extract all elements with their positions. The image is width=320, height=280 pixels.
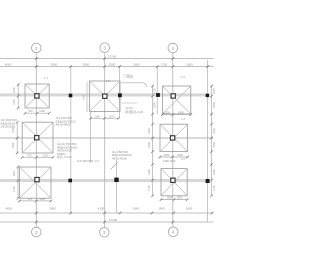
- svg-text:1050: 1050: [212, 88, 216, 94]
- svg-text:1050: 1050: [212, 141, 216, 147]
- svg-text:J-2: J-2: [181, 117, 185, 121]
- svg-text:1750: 1750: [147, 185, 151, 191]
- column KZ row3 grid4: [171, 178, 175, 182]
- column (filled) row3 c: [206, 179, 210, 183]
- annotation block JL1: [57, 142, 77, 159]
- svg-text:梁顶标高-0.20: 梁顶标高-0.20: [125, 110, 143, 114]
- column (filled) row3 a: [68, 179, 72, 183]
- svg-text:17100: 17100: [109, 218, 118, 222]
- svg-text:4: 4: [172, 230, 175, 235]
- svg-text:1300: 1300: [12, 170, 16, 176]
- column (filled) row1 c: [156, 93, 160, 97]
- bottom grid bubble 4: [168, 227, 178, 237]
- svg-text:1750: 1750: [12, 186, 16, 192]
- svg-text:J-2: J-2: [106, 79, 110, 83]
- svg-text:1050: 1050: [11, 142, 15, 148]
- column (filled) row1 d: [206, 94, 209, 97]
- bottom segment tick at grid 3: [103, 212, 106, 215]
- leader line to row3 beam: [111, 163, 118, 170]
- svg-text:4000: 4000: [5, 62, 12, 66]
- intermediate grid line c: [156, 67, 158, 115]
- left vertical dims row3: [12, 166, 19, 200]
- svg-text:3000: 3000: [49, 206, 56, 210]
- column KZ row2 grid4: [170, 136, 174, 140]
- svg-text:1100: 1100: [39, 109, 45, 113]
- svg-text:1050: 1050: [164, 111, 170, 115]
- svg-text:975: 975: [28, 197, 33, 201]
- column (filled) row3 b: [114, 178, 118, 182]
- svg-text:3: 3: [103, 46, 106, 51]
- grid line 4: [172, 54, 174, 228]
- top grid bubble 4: [168, 43, 178, 53]
- svg-text:4: 4: [172, 46, 175, 51]
- footing sub-dims row1 grid2: [24, 109, 51, 114]
- footing J-2 row1 grid4: [162, 86, 190, 114]
- footing row2 grid4: [160, 124, 188, 151]
- svg-text:1100: 1100: [94, 114, 100, 118]
- annotation JL6: [77, 159, 99, 163]
- svg-text:1050: 1050: [147, 141, 151, 147]
- grid line 2: [35, 54, 37, 228]
- svg-text:1300: 1300: [212, 169, 216, 175]
- svg-text:1100: 1100: [39, 197, 45, 201]
- svg-text:4Φ18;4Φ18: 4Φ18;4Φ18: [56, 123, 71, 127]
- right vertical dim line: [210, 85, 216, 197]
- top grid bubble 3: [100, 43, 110, 53]
- column KZ row1 grid4: [171, 94, 175, 98]
- svg-text:J-2: J-2: [181, 157, 185, 161]
- annotation block JL5 (left edge): [1, 118, 18, 129]
- door pier annotation 门垛位: [121, 73, 147, 86]
- aux line d: [90, 112, 92, 164]
- svg-text:1050: 1050: [177, 196, 183, 200]
- intermediate grid line b: [119, 67, 121, 119]
- bottom segment dimension line: [0, 206, 214, 214]
- svg-text:门垛位: 门垛位: [124, 73, 134, 78]
- svg-text:J-2: J-2: [181, 75, 185, 79]
- top overall dimension line: [0, 55, 214, 60]
- svg-text:1050: 1050: [164, 153, 170, 157]
- row2 beam line: [0, 137, 213, 139]
- footing2 left dim line: [82, 82, 88, 112]
- svg-text:2: 2: [35, 230, 38, 235]
- svg-text:1100: 1100: [109, 114, 115, 118]
- annotation block JL2: [112, 150, 132, 161]
- svg-text:2600: 2600: [186, 206, 193, 210]
- svg-text:3000: 3000: [83, 62, 90, 66]
- footing sub-dims row1 grid3: [89, 114, 120, 119]
- svg-text:4300: 4300: [98, 206, 105, 210]
- svg-text:4000: 4000: [6, 206, 13, 210]
- svg-text:600: 600: [28, 109, 33, 113]
- left vertical dims row1: [12, 83, 19, 109]
- svg-text:3000: 3000: [51, 62, 58, 66]
- column KZ row1 grid3: [103, 94, 107, 98]
- svg-text:1500: 1500: [109, 62, 116, 66]
- svg-text:1300: 1300: [147, 169, 151, 175]
- row3 wall band: [0, 179, 210, 182]
- svg-text:1050 1050: 1050 1050: [163, 159, 176, 163]
- svg-text:1100: 1100: [12, 99, 16, 105]
- top segment dimension line: [0, 62, 214, 68]
- right grid line: [207, 60, 209, 222]
- svg-text:2600: 2600: [133, 206, 140, 210]
- svg-text:J-1: J-1: [44, 76, 48, 80]
- svg-text:1050: 1050: [12, 87, 16, 93]
- svg-text:1100: 1100: [42, 153, 48, 157]
- svg-text:JL6 250×500 -0.3: JL6 250×500 -0.3: [77, 159, 99, 163]
- svg-text:1800: 1800: [82, 94, 86, 100]
- annotation block JL2(1) with level note: [122, 103, 143, 114]
- svg-text:1500: 1500: [158, 206, 165, 210]
- footing sub-dims row2 grid2: [21, 153, 54, 158]
- svg-text:2600: 2600: [133, 62, 140, 66]
- left vertical dims row2: [11, 121, 18, 154]
- annotation block JL3: [56, 116, 76, 127]
- intermediate grid line a: [70, 67, 72, 214]
- svg-text:2: 2: [35, 46, 38, 51]
- footing sub-dims row3 grid4: [160, 196, 189, 201]
- aux line e: [116, 160, 118, 213]
- svg-text:1700: 1700: [161, 62, 168, 66]
- footing row3 grid4: [161, 169, 187, 196]
- footing J-2 row1 grid3: [90, 81, 121, 112]
- svg-text:17100: 17100: [108, 55, 117, 59]
- svg-text:1800: 1800: [212, 102, 216, 108]
- column KZ row3 grid2: [35, 177, 39, 181]
- svg-text:1800: 1800: [178, 111, 184, 115]
- svg-text:标高 -0.030: 标高 -0.030: [57, 155, 72, 159]
- column (filled) row1 a: [69, 94, 73, 98]
- svg-text:2600: 2600: [186, 62, 193, 66]
- svg-text:1300: 1300: [147, 128, 151, 134]
- footing sub-dims row2 grid4: [159, 153, 189, 158]
- top grid bubble 2: [32, 43, 42, 53]
- column KZ row2 grid2: [35, 136, 39, 140]
- grid line 3: [104, 54, 106, 228]
- bottom grid bubble 2: [32, 227, 42, 237]
- svg-text:1050: 1050: [152, 88, 156, 94]
- footing sub-dims row3 grid2: [18, 197, 52, 202]
- svg-text:1750: 1750: [212, 185, 216, 191]
- footing row2 grid2: [22, 122, 53, 153]
- column KZ row1 grid2: [35, 94, 39, 98]
- column (filled) row1 b: [118, 93, 122, 97]
- svg-text:2Φ18;2Φ18: 2Φ18;2Φ18: [1, 125, 16, 129]
- bottom grid bubble 3: [100, 228, 110, 238]
- row1 wall band: [0, 93, 210, 96]
- svg-text:1300: 1300: [212, 128, 216, 134]
- footing J-1 row1 grid2: [25, 84, 49, 108]
- svg-text:975: 975: [27, 153, 32, 157]
- footing sub-dims row1 grid4: [161, 111, 192, 116]
- svg-text:4Φ18;4Φ18: 4Φ18;4Φ18: [112, 156, 127, 160]
- svg-text:3: 3: [103, 230, 106, 235]
- footing row3 grid2: [20, 167, 52, 198]
- svg-text:1800: 1800: [152, 102, 156, 108]
- interior vertical dim line: [147, 85, 157, 197]
- svg-text:1050: 1050: [166, 196, 172, 200]
- bottom overall dimension line: [0, 218, 214, 223]
